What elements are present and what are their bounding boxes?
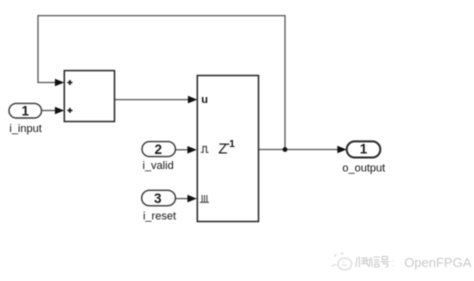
arrowhead into delay u input — [188, 96, 197, 104]
input port 3 oval — [142, 190, 176, 206]
output port 1 oval — [347, 141, 381, 157]
delay block U: Z^-1 — [197, 76, 258, 222]
svg-text:1: 1 — [229, 139, 235, 150]
glyph xin — [369, 257, 379, 267]
svg-text:1: 1 — [360, 142, 368, 157]
wire: delay output to o_output — [259, 149, 339, 151]
glyph wei — [356, 256, 370, 267]
colon — [392, 260, 394, 266]
glyph hao — [381, 257, 390, 268]
pin: enable pulse symbol — [201, 147, 209, 153]
input port 1 oval — [9, 103, 42, 118]
wire: sum output to delay u input — [115, 99, 189, 101]
plus sign for sum input 2 — [67, 108, 72, 113]
pin: reset symbol — [200, 195, 209, 202]
wire: feedback loop from node A up over to sum input 1 — [38, 16, 285, 150]
arrowhead into sum input 2 — [55, 107, 64, 115]
svg-text:Z: Z — [218, 140, 227, 157]
arrowhead into delay reset input — [187, 195, 196, 203]
svg-text:o_output: o_output — [342, 162, 385, 174]
svg-text:i_input: i_input — [9, 123, 41, 135]
plus sign for sum input 1 — [67, 80, 72, 85]
junction node A dot — [283, 147, 288, 152]
svg-text:OpenFPGA: OpenFPGA — [404, 255, 472, 270]
arrowhead into o_output port — [337, 146, 346, 154]
wire: i_valid to delay enable input — [175, 149, 188, 151]
watermark mascot icon — [331, 253, 351, 270]
svg-text:u: u — [201, 94, 208, 106]
sum block (adder) — [64, 71, 114, 122]
svg-text:3: 3 — [154, 191, 162, 206]
input port 2 oval — [142, 142, 175, 157]
wire: i_reset to delay reset input — [175, 198, 188, 200]
svg-text:i_valid: i_valid — [143, 160, 174, 172]
svg-text:2: 2 — [154, 142, 162, 157]
svg-text:i_reset: i_reset — [143, 211, 176, 223]
arrowhead into delay enable input — [187, 146, 196, 154]
svg-text:1: 1 — [21, 103, 29, 118]
arrowhead into sum input 1 — [55, 79, 64, 87]
watermark text: 微信号: OpenFPGA — [356, 256, 394, 267]
wire: i_input to sum input 2 — [42, 110, 56, 112]
